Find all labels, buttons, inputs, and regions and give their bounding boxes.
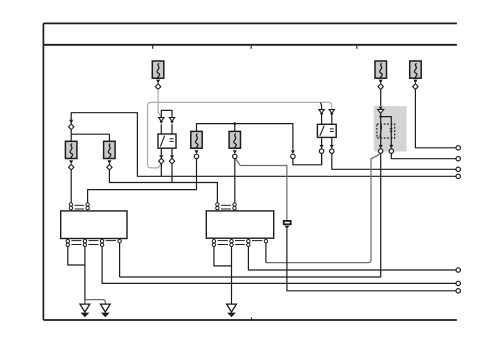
relay R3	[377, 124, 395, 138]
connector R1 top-right pin	[169, 118, 174, 124]
terminal node R2 output	[456, 167, 460, 171]
terminal node R3 output	[456, 157, 460, 161]
wire R3 bottom-left to box1 pin4 line	[120, 153, 381, 277]
ground G2	[100, 304, 110, 317]
fuse F3	[410, 61, 422, 78]
wire R3 pins through box	[381, 124, 392, 145]
box1 bottom pin2 connector	[83, 240, 86, 247]
relay R2	[317, 124, 336, 137]
box2 bottom pin1 connector	[212, 240, 215, 247]
wire coil connector to relay R2	[293, 153, 322, 164]
wire box2 pin3 to terminal	[248, 247, 456, 270]
terminal node box1 pin3	[456, 281, 460, 285]
wire R3 feed split	[379, 114, 391, 124]
wire F1 to relay R1 top	[158, 89, 161, 117]
frame border	[43, 23, 457, 320]
ground G3	[227, 304, 237, 317]
connector below fuse C	[194, 150, 198, 158]
shield box	[284, 221, 291, 229]
box2 bottom rail dashes	[218, 241, 263, 245]
ECU box1	[61, 211, 127, 239]
fuse C	[191, 131, 202, 148]
wire F2 to relay R3	[380, 89, 382, 107]
wire box1 pin4 to relay R3	[119, 243, 121, 277]
connector R2 bottom-right pin	[330, 145, 334, 153]
wire R2 pins through box	[322, 124, 332, 145]
ground G1	[80, 304, 90, 317]
box1 top pin1 connector	[69, 203, 72, 210]
box2 bottom pin2 connector	[230, 240, 233, 247]
wire shield box to terminal	[287, 229, 456, 291]
ECU box2	[206, 211, 273, 238]
fuse B	[104, 141, 116, 158]
connector R2 bottom-left pin	[319, 145, 323, 153]
connector below F1	[155, 80, 160, 90]
relay R1	[158, 134, 176, 148]
terminal node box2 pin3	[456, 268, 460, 272]
connector R1 bottom-left pin	[159, 155, 164, 164]
box1 bottom pin1 connector	[66, 240, 69, 247]
wire R1 bottom-left to long line	[160, 164, 162, 176]
connector above fuse A	[69, 120, 74, 130]
connector R3 bottom-right pin	[389, 145, 393, 153]
wire box2 pin2 to ground G3	[231, 247, 233, 304]
box1 bottom pin3 connector	[100, 240, 103, 247]
shaded assembly box	[374, 106, 407, 151]
wire fuse rail	[197, 124, 293, 150]
junction dot fuse D rail	[233, 122, 236, 125]
wire fuse B to box2 pin1	[109, 170, 217, 203]
wire R2 bottom-left down	[321, 153, 323, 165]
wire branch to fuse B top	[71, 134, 109, 141]
connector below F2	[378, 80, 383, 90]
wire feed line to right terminal	[71, 113, 456, 177]
connector R2 top-right pin	[329, 110, 334, 116]
terminal node long line	[456, 174, 460, 178]
fuse F2	[375, 61, 387, 78]
terminal node F3	[456, 146, 460, 150]
wire R1 pins through box	[161, 124, 172, 155]
wire box1 pin2 to ground G1	[84, 247, 86, 304]
box1 top rail dashes	[75, 205, 85, 209]
connector below F3	[413, 80, 418, 90]
box2 top pin1 connector	[216, 203, 219, 210]
wire R3 bottom-right to terminal	[391, 153, 456, 158]
connector R2 top-left pin	[319, 110, 324, 116]
wire gray R3 branch to box2 pin4	[266, 154, 381, 263]
wire box1 pin3 to terminal	[102, 247, 456, 284]
connector R3 top pin	[378, 107, 384, 114]
box2 top pin2 connector	[233, 203, 236, 210]
connector coil feed	[291, 150, 295, 158]
connector below fuse A	[69, 160, 74, 170]
fuse A	[65, 141, 77, 158]
box1 bottom pin4 connector	[118, 240, 121, 243]
wire fuse D top	[234, 124, 236, 132]
fuse F1	[152, 61, 164, 78]
wire R2 top stubs	[321, 103, 332, 125]
fuse D	[229, 131, 240, 148]
wire box1 pin1 loop	[68, 247, 85, 265]
connector below fuse D	[233, 150, 237, 158]
wire gray fuse D branch to shield box	[236, 159, 287, 221]
wire fuse A to box1 pin1	[70, 170, 72, 203]
connector R1 bottom-right pin	[169, 155, 174, 164]
box1 top pin2 connector	[86, 203, 89, 210]
wire R1 bottom-right to fuse B line	[171, 164, 173, 183]
box1 bottom rail dashes	[71, 241, 116, 245]
terminal node shield	[456, 289, 460, 293]
wire R1 top bar	[161, 110, 172, 117]
wire fuse C to box1 pin2	[88, 159, 197, 203]
wire gray R1 output to R2 tops	[148, 102, 332, 167]
connector R3 bottom-left pin	[379, 145, 383, 153]
connector below fuse B	[107, 160, 112, 170]
wire fuse D to box2 pin2	[234, 159, 236, 203]
box2 bottom pin4 connector	[264, 240, 267, 243]
wire connector to fuse A	[70, 130, 72, 142]
wire box2 pin4 gray branch	[265, 243, 267, 263]
wire box2 pin1 loop	[214, 247, 232, 266]
box2 bottom pin3 connector	[247, 240, 250, 247]
wire F3 to terminal	[415, 89, 456, 148]
box2 top rail dashes	[221, 205, 231, 209]
connector R1 top-left pin	[159, 118, 164, 124]
wire ground jumper	[85, 300, 105, 305]
wire R2 bottom-right to terminal	[332, 153, 456, 169]
